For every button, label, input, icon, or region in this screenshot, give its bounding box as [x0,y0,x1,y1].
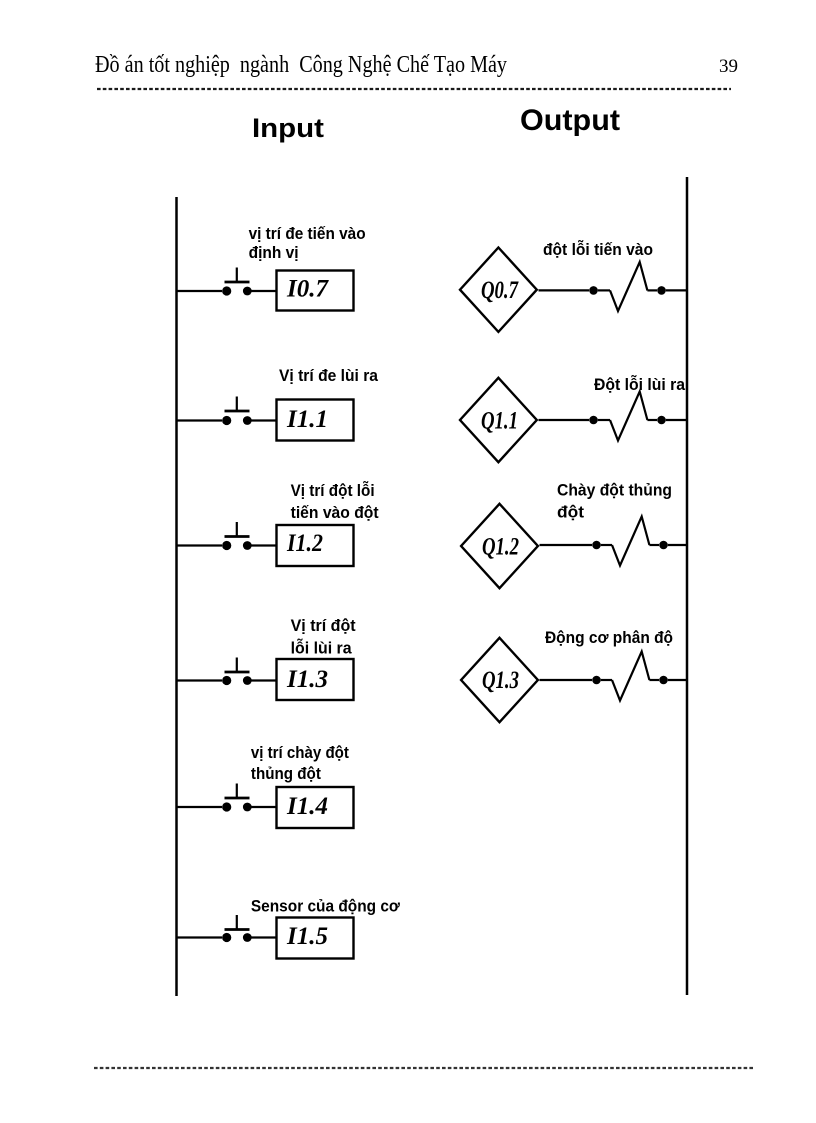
junction dots + surge element rowB [589,392,666,441]
coil diamond Q0.7 [460,248,537,332]
svg-text:I1.2: I1.2 [286,530,323,557]
wire row6 right [252,936,277,938]
wire row4 left [177,679,223,681]
svg-text:Output: Output [520,104,620,137]
wire rowB [539,419,590,421]
wire row4 right [252,679,277,681]
wire rowD to rail [668,679,687,681]
svg-text:39: 39 [719,56,738,77]
pushbutton contact row2 [222,397,252,426]
header dashed rule [97,88,731,90]
junction dots + surge element rowA [589,262,666,311]
page number 39 [719,56,738,77]
header title [95,52,507,78]
coil diamond Q1.3 [461,638,538,722]
pushbutton contact row1 [222,268,252,296]
svg-text:vị trí đe tiến vào: vị trí đe tiến vào [249,224,366,243]
label: Vi tri dot loi / tien vao dot [291,481,379,522]
wire row5 left [177,806,223,808]
wire rowC [540,544,593,546]
pushbutton contact row5 [222,784,252,812]
svg-text:Vị trí đột lỗi: Vị trí đột lỗi [291,481,375,500]
svg-text:Input: Input [252,113,324,143]
wire rowC to rail [668,544,687,546]
Output column title [520,104,620,137]
svg-text:I1.4: I1.4 [286,793,328,820]
box I1.2 [277,525,354,566]
box I1.5 [277,918,354,959]
svg-text:đột: đột [557,503,584,522]
footer dashed rule [94,1067,753,1069]
svg-text:I0.7: I0.7 [286,276,329,303]
label: Vi tri dot / loi lui ra [291,616,356,658]
svg-text:Đồ án tốt nghiệp ngành Công: Đồ án tốt nghiệp ngành Công Nghệ Chế Tạo… [95,52,507,78]
junction dots + surge element rowD [592,652,668,701]
box I1.1 [277,400,354,441]
pushbutton contact row3 [222,522,252,550]
wire rowA [539,289,590,291]
svg-text:I1.1: I1.1 [286,406,328,433]
pushbutton contact row4 [222,658,252,686]
svg-text:Q1.3: Q1.3 [482,667,519,694]
wire row2 left [177,419,223,421]
pushbutton contact row6 [222,915,252,942]
svg-text:Vị trí đột: Vị trí đột [291,616,356,635]
wire row1 right [252,290,277,292]
left rail [175,197,178,996]
wire row6 left [177,936,223,938]
svg-text:I1.3: I1.3 [286,666,328,693]
wire row5 right [252,806,277,808]
label: Vi tri de lui ra [279,366,378,385]
svg-text:lỗi lùi ra: lỗi lùi ra [291,639,353,658]
svg-text:đột lỗi tiến vào: đột lỗi tiến vào [543,240,653,259]
label: vi tri chay dot / thung dot [251,743,349,783]
label: dot loi tien vao [543,240,653,259]
coil diamond Q1.1 [460,378,537,462]
svg-text:định vị: định vị [249,243,299,262]
wire rowB to rail [666,419,687,421]
svg-text:I1.5: I1.5 [286,923,328,950]
label: Sensor cua dong co [251,897,401,916]
svg-text:thủng đột: thủng đột [251,764,321,783]
box I1.3 [277,659,354,700]
svg-text:Vị trí đe lùi ra: Vị trí đe lùi ra [279,366,378,385]
Input column title [252,113,324,143]
box I0.7 [277,271,354,311]
wire rowD [540,679,593,681]
svg-text:Q0.7: Q0.7 [481,277,519,304]
svg-text:Q1.1: Q1.1 [481,408,518,435]
label: Chay dot thung / dot [557,481,672,522]
wire row3 left [177,544,223,546]
svg-text:tiến vào đột: tiến vào đột [291,503,379,522]
svg-text:Động cơ phân độ: Động cơ phân độ [545,628,673,647]
wire rowA to rail [666,289,687,291]
svg-text:Q1.2: Q1.2 [482,534,519,561]
junction dots + surge element rowC [592,517,668,566]
wire row1 left [177,290,223,292]
svg-text:vị trí chày đột: vị trí chày đột [251,743,349,762]
label: Dot loi lui ra [594,375,685,394]
wire row2 right [252,419,277,421]
box I1.4 [277,787,354,828]
wire row3 right [252,544,277,546]
svg-text:Chày đột thủng: Chày đột thủng [557,481,672,500]
coil diamond Q1.2 [461,504,538,588]
right rail [686,177,689,995]
label: vi tri de tien vao / dinh vi [249,224,366,262]
label: Dong co phan do [545,628,673,647]
svg-text:Sensor của động cơ: Sensor của động cơ [251,897,401,916]
